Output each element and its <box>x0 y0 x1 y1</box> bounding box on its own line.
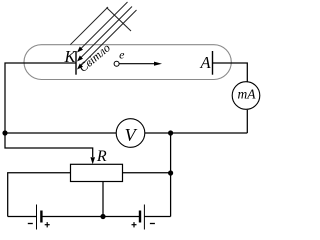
wire rheostat left to left rail <box>8 173 71 217</box>
bottom wire middle segment <box>41 216 140 218</box>
battery 1 long plate <box>36 205 38 230</box>
electron circle <box>114 61 119 66</box>
svg-text:mA: mA <box>238 86 257 101</box>
wire up to milliammeter <box>246 110 248 133</box>
phototube envelope <box>24 45 231 80</box>
wire V to right node <box>145 132 248 134</box>
bottom wire left segment <box>8 216 37 218</box>
wire rheostat right <box>123 172 171 174</box>
electron velocity arrow <box>119 63 155 65</box>
wavefront line across rays <box>107 8 132 32</box>
battery 1 short plate <box>40 211 42 223</box>
battery 2 minus label <box>150 223 155 225</box>
wire dot to voltmeter <box>5 132 116 134</box>
wire rheostat bottom tap <box>102 182 104 217</box>
svg-text:A: A <box>199 53 211 72</box>
battery 2 plus label <box>132 222 137 227</box>
node dot right <box>168 130 173 135</box>
light ray 2 <box>80 7 133 60</box>
milliammeter mA <box>232 82 260 110</box>
light ray 1 <box>80 2 128 50</box>
anode A plate <box>212 51 214 75</box>
wire mA to anode <box>213 63 248 82</box>
cathode K plate <box>75 51 77 75</box>
rheostat R body <box>71 164 123 181</box>
wire right branch down <box>170 133 172 217</box>
battery 2 short plate <box>139 211 141 223</box>
battery 1 minus label <box>28 223 33 225</box>
battery 2 long plate <box>143 205 145 230</box>
bottom wire right segment <box>144 216 170 218</box>
node dot battery tap <box>100 214 105 219</box>
node dot at rheostat right wire <box>168 170 173 175</box>
node dot left <box>2 130 7 135</box>
svg-text:e: e <box>119 48 125 62</box>
battery 1 plus label <box>45 222 50 227</box>
light ray 3 <box>80 10 137 67</box>
svg-text:R: R <box>96 148 107 165</box>
voltmeter V <box>116 119 145 148</box>
light ray stopped by tube wall <box>70 7 108 45</box>
wire K lead left <box>5 63 93 157</box>
wiper arrow into R <box>90 157 95 164</box>
